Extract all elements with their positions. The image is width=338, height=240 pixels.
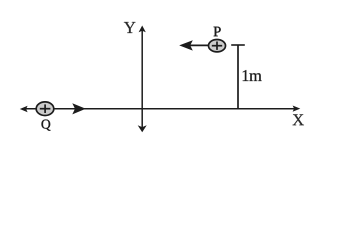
Y axis label Y	[124, 22, 136, 33]
X axis line	[22, 108, 298, 110]
Y axis down arrowhead	[138, 125, 147, 132]
dimension line 1m: vertical line	[237, 45, 239, 109]
dimension line 1m: top tick	[231, 44, 245, 46]
dimension label 1m	[243, 70, 262, 81]
charge Q label	[42, 120, 51, 131]
charge P label	[214, 27, 221, 36]
charge P ellipse with plus	[209, 40, 226, 52]
Y axis up arrowhead	[139, 26, 146, 33]
Y axis line	[141, 27, 143, 131]
velocity arrowhead of charge Q (pointing right, on axis)	[72, 103, 86, 114]
X axis left arrowhead	[20, 106, 28, 112]
velocity arrow of charge P (pointing left)	[179, 40, 209, 50]
X axis right arrowhead	[293, 106, 301, 112]
charge Q ellipse with plus	[36, 102, 54, 116]
X axis label X	[293, 114, 304, 125]
